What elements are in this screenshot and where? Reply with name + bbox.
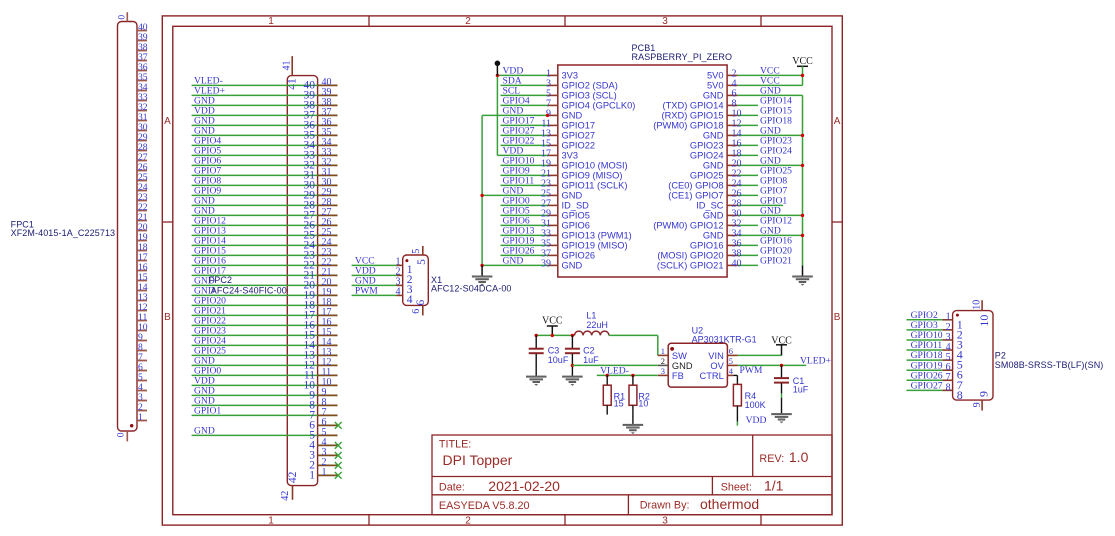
wire GND to PCB1 pin 34: [703, 226, 803, 241]
wire GPIO18 to PCB1 pin 12: [653, 116, 792, 131]
svg-text:AP3031KTR-G1: AP3031KTR-G1: [692, 335, 757, 345]
wire GPIO19 to PCB1 pin 35: [501, 236, 628, 251]
svg-text:othermod: othermod: [700, 496, 759, 512]
svg-text:GND: GND: [503, 256, 524, 267]
svg-text:VDD: VDD: [746, 415, 767, 426]
wire SCL to PCB1 pin 5: [501, 86, 617, 101]
wire L1 to U2 SW: [609, 335, 658, 355]
wire GPIO25 to FPC2 pin 13: [192, 346, 338, 362]
wire VCC to PCB1 pin 2: [707, 66, 803, 81]
svg-text:GPIO27: GPIO27: [911, 380, 943, 391]
connector FPC2 body: [287, 76, 317, 486]
svg-text:(PWM0) GPIO18: (PWM0) GPIO18: [653, 121, 723, 131]
P2 pin 9 (bottom): [972, 391, 990, 411]
P2 reference label: [995, 351, 1104, 371]
ground (C3): [526, 376, 546, 386]
IC PCB1 RASPBERRY_PI_ZERO body: [558, 65, 727, 277]
connector X1 body: [403, 255, 429, 305]
svg-text:GND: GND: [194, 426, 215, 437]
title block: [432, 435, 832, 515]
svg-text:GPIO6: GPIO6: [562, 221, 590, 231]
svg-text:1: 1: [268, 16, 274, 27]
svg-text:B: B: [834, 312, 841, 323]
svg-text:SW: SW: [672, 351, 687, 361]
svg-text:41: 41: [281, 61, 292, 71]
svg-text:3V3: 3V3: [562, 151, 579, 161]
X1 pin 5 (top): [411, 246, 428, 265]
svg-text:3: 3: [662, 515, 668, 526]
ground (PCB1 left): [472, 276, 492, 286]
svg-text:2: 2: [661, 356, 665, 366]
svg-text:10: 10: [638, 398, 648, 408]
wire GPIO25 to PCB1 pin 22: [690, 166, 792, 181]
svg-text:0: 0: [116, 15, 127, 20]
wire GND to FPC2 pin 28: [192, 196, 338, 212]
wire GPIO13 to PCB1 pin 33: [501, 226, 632, 241]
capacitor C3: [529, 335, 569, 375]
wire GPIO1 to PCB1 pin 28: [696, 196, 787, 211]
svg-text:9: 9: [977, 391, 991, 397]
wire GPIO17 to PCB1 pin 11: [501, 116, 596, 131]
wire VCC bus (PCB1 pins 2-4): [801, 66, 804, 85]
svg-text:42: 42: [280, 491, 291, 501]
wire GND to FPC2 pin 5: [192, 426, 338, 442]
wire GND to PCB1 pin 39: [482, 256, 582, 271]
resistor R2: [629, 375, 650, 424]
svg-text:ID_SD: ID_SD: [562, 201, 590, 211]
svg-text:1.0: 1.0: [789, 449, 809, 465]
svg-text:B: B: [164, 312, 171, 323]
wire GPIO23 to FPC2 pin 15: [192, 326, 338, 342]
U2 pin 5 OV: [710, 356, 737, 371]
svg-text:(SCLK) GPIO21: (SCLK) GPIO21: [657, 261, 724, 271]
P2 pin 10 (top): [972, 300, 991, 327]
svg-text:GPIO3 (SCL): GPIO3 (SCL): [562, 91, 617, 101]
svg-text:6: 6: [415, 299, 427, 305]
wire GPIO7 to PCB1 pin 26: [668, 186, 787, 201]
svg-text:(RXD) GPIO15: (RXD) GPIO15: [662, 111, 724, 121]
wire PWM (U2 pin4 to R4): [733, 365, 763, 385]
FPC1 pins 40-1: [137, 22, 148, 423]
svg-text:AFC12-S04DCA-00: AFC12-S04DCA-00: [431, 284, 512, 294]
svg-text:GND: GND: [703, 131, 724, 141]
svg-text:GPIO13 (PWM1): GPIO13 (PWM1): [562, 231, 632, 241]
wire GPIO11 to P2 pin 4: [907, 340, 963, 361]
FPC2 pin 41 (top): [281, 56, 298, 90]
power flag VCC (PCB1 right): [792, 56, 813, 67]
svg-text:5: 5: [729, 356, 733, 366]
svg-text:(CE1) GPIO7: (CE1) GPIO7: [668, 191, 723, 201]
wire GPIO5 to PCB1 pin 29: [501, 206, 590, 221]
svg-text:4: 4: [396, 287, 401, 298]
wire GPIO4 to PCB1 pin 7: [501, 96, 636, 111]
svg-text:GPIO21: GPIO21: [760, 256, 792, 267]
svg-text:A: A: [164, 116, 171, 127]
svg-text:6: 6: [729, 346, 733, 356]
svg-text:9: 9: [972, 402, 983, 407]
svg-text:1uF: 1uF: [583, 355, 599, 365]
svg-text:1: 1: [268, 515, 274, 526]
svg-text:6: 6: [411, 309, 422, 314]
wire GPIO16 to PCB1 pin 36: [690, 236, 792, 251]
wire GPIO7 to FPC2 pin 31: [192, 166, 338, 182]
svg-text:GPIO10 (MOSI): GPIO10 (MOSI): [562, 161, 628, 171]
svg-text:VCC: VCC: [792, 56, 813, 67]
ground (PCB1 right): [793, 276, 813, 286]
svg-text:0: 0: [115, 432, 126, 437]
wire GPIO9 to PCB1 pin 21: [501, 166, 623, 181]
svg-text:8: 8: [946, 382, 951, 393]
svg-text:GPIO16: GPIO16: [690, 241, 724, 251]
wire VCC to X1 pin 1: [352, 256, 413, 276]
wire GPIO0 to FPC2 pin 11: [192, 366, 338, 382]
svg-text:2021-02-20: 2021-02-20: [488, 478, 560, 494]
svg-text:REV:: REV:: [759, 453, 784, 465]
wire GND to FPC2 pin 20: [192, 276, 338, 292]
wire GND to PCB1 pin 9: [482, 106, 582, 121]
svg-text:EASYEDA V5.8.20: EASYEDA V5.8.20: [439, 500, 530, 512]
svg-text:PWM: PWM: [355, 286, 378, 297]
wire GND to FPC2 pin 19: [192, 286, 338, 302]
svg-text:GPIO2 (SDA): GPIO2 (SDA): [562, 81, 618, 91]
svg-text:(CE0) GPIO8: (CE0) GPIO8: [668, 181, 723, 191]
VDD stub with dot: [495, 61, 501, 76]
svg-text:GPIO17: GPIO17: [562, 121, 596, 131]
wire GND bus (PCB1 right): [801, 95, 804, 275]
FPC2 pin 2 (n/c): [309, 457, 341, 471]
wire GND to PCB1 pin 25: [482, 186, 582, 201]
svg-text:PWM: PWM: [740, 365, 763, 376]
FPC2 pin 42 (bottom): [280, 471, 299, 500]
wire GPIO14 to FPC2 pin 24: [192, 236, 338, 252]
wire GPIO21 to PCB1 pin 40: [657, 256, 792, 271]
wire GPIO20 to PCB1 pin 38: [657, 246, 792, 261]
svg-text:39: 39: [541, 258, 551, 269]
svg-text:15: 15: [614, 398, 624, 408]
wire VDD to FPC2 pin 10: [192, 376, 338, 392]
wire VDD to X1 pin 2: [352, 266, 413, 286]
svg-text:VIN: VIN: [708, 351, 724, 361]
svg-text:GPIO24: GPIO24: [690, 151, 724, 161]
svg-text:GND: GND: [672, 361, 693, 371]
svg-text:GND: GND: [703, 231, 724, 241]
wire VLED- to FPC2 pin 40: [192, 76, 338, 92]
svg-text:40: 40: [732, 258, 742, 269]
U2 pin 4 CTRL: [700, 366, 734, 381]
inductor L1: [575, 310, 609, 335]
wire GPIO15 to PCB1 pin 10: [662, 106, 793, 121]
wire GPIO11 to PCB1 pin 23: [501, 176, 628, 191]
svg-text:1: 1: [138, 412, 143, 423]
wire GPIO21 to FPC2 pin 17: [192, 306, 338, 322]
wire GPIO10 to P2 pin 3: [907, 330, 963, 351]
svg-text:8: 8: [957, 388, 963, 402]
wire GPIO10 to PCB1 pin 19: [501, 156, 628, 171]
IC U2 body: [668, 343, 727, 387]
svg-text:(MOSI) GPIO20: (MOSI) GPIO20: [657, 251, 723, 261]
wire VCC rail: [535, 326, 575, 337]
wire VDD to FPC2 pin 37: [192, 106, 338, 122]
wire SDA to PCB1 pin 3: [501, 76, 618, 91]
wire GPIO19 to P2 pin 6: [907, 360, 963, 381]
wire GPIO6 to FPC2 pin 32: [192, 156, 338, 172]
wire VLED+ (U2 pin5): [738, 356, 831, 367]
svg-text:10uF: 10uF: [548, 355, 569, 365]
FPC1 reference label: [11, 219, 116, 238]
FPC2 pin 4 (n/c): [309, 437, 341, 451]
wire GPIO13 to FPC2 pin 25: [192, 226, 338, 242]
wire GND to PCB1 pin 14: [703, 126, 803, 141]
wire GPIO27 to PCB1 pin 13: [501, 126, 596, 141]
svg-text:CTRL: CTRL: [700, 371, 724, 381]
U2 pin 6 VIN: [708, 346, 738, 361]
X1 pin1 mark: [405, 259, 408, 262]
wire GND to X1 pin 3: [352, 276, 413, 296]
wire GND to FPC2 pin 27: [192, 206, 338, 222]
X1 pin 6 (bottom): [411, 299, 427, 315]
U2 reference label: [692, 326, 757, 345]
svg-text:GND: GND: [562, 261, 583, 271]
wire VLED+ to FPC2 pin 39: [192, 86, 338, 102]
svg-text:Drawn By:: Drawn By:: [640, 500, 690, 512]
wire GND to FPC2 pin 12: [192, 356, 338, 372]
svg-text:1: 1: [309, 469, 315, 481]
svg-text:2: 2: [465, 515, 471, 526]
svg-text:RASPBERRY_PI_ZERO: RASPBERRY_PI_ZERO: [632, 52, 733, 62]
P2 pin1 mark: [956, 314, 959, 317]
svg-text:GPIO25: GPIO25: [690, 171, 724, 181]
svg-text:(TXD) GPIO14: (TXD) GPIO14: [663, 101, 724, 111]
svg-text:GPIO23: GPIO23: [690, 141, 724, 151]
ground (R2): [623, 424, 643, 434]
resistor R4: [733, 384, 765, 425]
svg-text:VLED+: VLED+: [800, 356, 831, 367]
svg-text:DPI Topper: DPI Topper: [443, 452, 513, 468]
svg-text:3V3: 3V3: [562, 71, 579, 81]
wire GPIO23 to PCB1 pin 16: [690, 136, 792, 151]
FPC1 mounting pin 0 (bottom): [115, 431, 127, 441]
wire GND to PCB1 pin 20: [703, 156, 803, 171]
svg-text:42: 42: [287, 471, 299, 483]
wire GPIO22 to FPC2 pin 16: [192, 316, 338, 332]
FPC1 mounting pin 0 (top): [116, 12, 127, 21]
wire GND to FPC2 pin 35: [192, 126, 338, 142]
svg-text:A: A: [834, 116, 841, 127]
wire GND to FPC2 pin 9: [192, 386, 338, 402]
svg-text:1: 1: [322, 467, 327, 478]
svg-text:GND: GND: [562, 111, 583, 121]
svg-text:Date:: Date:: [439, 481, 465, 493]
svg-text:ID_SC: ID_SC: [696, 201, 724, 211]
svg-text:5V0: 5V0: [707, 81, 724, 91]
wire PWM to X1 pin 4: [352, 286, 413, 306]
wire GPIO2 to P2 pin 1: [907, 310, 963, 331]
svg-text:2: 2: [465, 16, 471, 27]
PCB1 pin9 junction: [546, 114, 549, 117]
svg-text:41: 41: [286, 78, 298, 90]
svg-text:SM08B-SRSS-TB(LF)(SN): SM08B-SRSS-TB(LF)(SN): [995, 360, 1104, 370]
ground (C1): [772, 413, 792, 423]
wire GPIO26 to P2 pin 7: [907, 370, 963, 391]
svg-text:GPIO11 (SCLK): GPIO11 (SCLK): [562, 181, 628, 191]
connector P2 body: [953, 311, 993, 401]
wire GPIO4 to FPC2 pin 34: [192, 136, 338, 152]
wire VDD link (PCB1 pins 1-17): [496, 74, 499, 156]
svg-text:Sheet:: Sheet:: [721, 481, 752, 493]
wire GPIO24 to FPC2 pin 14: [192, 336, 338, 352]
wire GND (U2 pin2 to C2): [572, 364, 657, 366]
svg-text:GND: GND: [703, 91, 724, 101]
wire GND to FPC2 pin 38: [192, 96, 338, 112]
wire GND to PCB1 pin 30: [703, 206, 803, 221]
wire GPIO12 to PCB1 pin 32: [653, 216, 792, 231]
wire GPIO18 to P2 pin 5: [907, 350, 963, 371]
svg-text:GPIO26: GPIO26: [562, 251, 596, 261]
wire GPIO9 to FPC2 pin 29: [192, 186, 338, 202]
wire GPIO16 to FPC2 pin 22: [192, 256, 338, 272]
FPC2 pin 3 (n/c): [309, 447, 341, 461]
svg-text:5V0: 5V0: [707, 71, 724, 81]
FPC2 pin 6 (n/c): [309, 417, 341, 431]
svg-text:VLED-: VLED-: [600, 365, 629, 376]
svg-text:10: 10: [977, 315, 991, 327]
connector FPC1 body: [118, 22, 138, 432]
svg-text:AFC24-S40FIC-00: AFC24-S40FIC-00: [211, 285, 287, 295]
wire GPIO8 to FPC2 pin 30: [192, 176, 338, 192]
wire VLED- (U2 pin3): [597, 365, 658, 377]
svg-text:FB: FB: [672, 371, 684, 381]
svg-text:XF2M-4015-1A_C225713: XF2M-4015-1A_C225713: [11, 228, 116, 238]
wire GPIO8 to PCB1 pin 24: [668, 176, 787, 191]
svg-text:GPIO1: GPIO1: [194, 406, 221, 417]
resistor R1: [603, 375, 625, 414]
svg-text:OV: OV: [710, 361, 724, 371]
wire VCC to PCB1 pin 4: [707, 76, 803, 91]
svg-text:GPIO9 (MISO): GPIO9 (MISO): [562, 171, 623, 181]
power flag VCC (boost input): [542, 316, 563, 327]
wire GPIO6 to PCB1 pin 31: [501, 216, 590, 231]
wire VDD to PCB1 pin 17: [497, 146, 578, 161]
X1 reference label: [431, 275, 512, 294]
svg-text:(PWM0) GPIO12: (PWM0) GPIO12: [653, 221, 723, 231]
svg-text:3: 3: [662, 16, 668, 27]
svg-text:GPIO19 (MISO): GPIO19 (MISO): [562, 241, 628, 251]
wire VDD to PCB1 pin 1: [497, 66, 578, 81]
svg-text:VCC: VCC: [542, 316, 563, 327]
PCB1 reference label: [632, 43, 733, 62]
svg-text:22uH: 22uH: [586, 320, 608, 330]
wire GPIO5 to FPC2 pin 33: [192, 146, 338, 162]
wire VIN to VCC: [738, 345, 782, 356]
U2 pin1 mark: [670, 347, 674, 351]
wire GPIO22 to PCB1 pin 15: [501, 136, 596, 151]
svg-text:GND: GND: [703, 161, 724, 171]
power flag VCC (U2 VIN): [771, 335, 792, 346]
wire GPIO20 to FPC2 pin 18: [192, 296, 338, 312]
svg-text:L1: L1: [586, 310, 596, 320]
ground (C2): [562, 376, 582, 386]
U2 pin 3 FB: [658, 366, 684, 381]
sheet frame: [162, 16, 842, 526]
svg-text:5: 5: [411, 249, 422, 254]
FPC2 pin 1 (n/c): [309, 467, 341, 481]
FPC1 pin1 mark: [130, 424, 133, 427]
FPC2 reference label: [209, 275, 287, 295]
svg-text:GPIO22: GPIO22: [562, 141, 596, 151]
svg-text:10: 10: [972, 300, 983, 310]
svg-text:1/1: 1/1: [764, 478, 784, 494]
svg-text:1uF: 1uF: [793, 385, 809, 395]
wire GPIO27 to P2 pin 8: [907, 380, 963, 401]
svg-text:1: 1: [661, 346, 665, 356]
capacitor C2: [565, 335, 599, 375]
svg-text:100K: 100K: [745, 400, 766, 410]
svg-text:5: 5: [416, 259, 428, 265]
wire GPIO15 to FPC2 pin 23: [192, 246, 338, 262]
svg-text:GPIO27: GPIO27: [562, 131, 596, 141]
U2 pin 1 SW: [658, 346, 687, 361]
C2/GND junction: [571, 364, 574, 367]
U2 pin 2 GND: [658, 356, 693, 371]
wire GND to FPC2 pin 8: [192, 396, 338, 412]
wire GPIO12 to FPC2 pin 26: [192, 216, 338, 232]
svg-text:3: 3: [661, 366, 665, 376]
wire GPIO24 to PCB1 pin 18: [690, 146, 792, 161]
wire GPIO1 to FPC2 pin 7: [192, 406, 338, 422]
wire GPIO0 to PCB1 pin 27: [501, 196, 590, 211]
wire GPIO17 to FPC2 pin 21: [192, 266, 338, 282]
svg-text:VCC: VCC: [771, 335, 792, 346]
wire GPIO14 to PCB1 pin 8: [663, 96, 793, 111]
svg-text:4: 4: [729, 366, 734, 376]
svg-text:GND: GND: [562, 191, 583, 201]
wire GPIO26 to PCB1 pin 37: [501, 246, 596, 261]
capacitor C1: [774, 365, 809, 413]
wire GND bus (PCB1 left): [480, 115, 483, 275]
svg-text:GPIO5: GPIO5: [562, 211, 590, 221]
wire GPIO3 to P2 pin 2: [907, 320, 963, 341]
svg-text:FPC2: FPC2: [209, 275, 232, 285]
svg-text:4: 4: [407, 294, 413, 306]
svg-text:GPIO4 (GPCLK0): GPIO4 (GPCLK0): [562, 101, 636, 111]
wire GND to FPC2 pin 36: [192, 116, 338, 132]
svg-text:P2: P2: [995, 351, 1006, 361]
svg-text:GND: GND: [703, 211, 724, 221]
svg-text:TITLE:: TITLE:: [439, 439, 471, 451]
wire GND to PCB1 pin 6: [703, 86, 803, 101]
